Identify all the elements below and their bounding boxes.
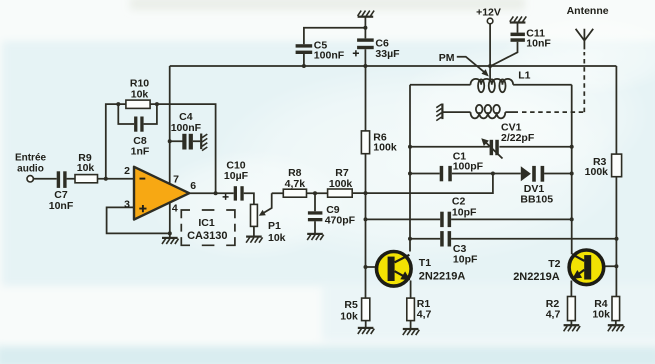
svg-text:100k: 100k	[585, 166, 609, 178]
svg-text:L1: L1	[518, 70, 530, 82]
svg-text:4,7: 4,7	[546, 309, 561, 321]
svg-text:10µF: 10µF	[224, 170, 249, 182]
svg-text:10nF: 10nF	[49, 200, 74, 212]
svg-text:10nF: 10nF	[526, 37, 551, 49]
svg-text:10k: 10k	[77, 162, 95, 174]
svg-text:100nF: 100nF	[171, 122, 202, 134]
svg-text:100k: 100k	[329, 178, 353, 190]
svg-text:2: 2	[124, 165, 130, 177]
svg-text:4: 4	[172, 202, 178, 214]
svg-text:33µF: 33µF	[375, 48, 400, 60]
svg-text:4,7k: 4,7k	[285, 178, 306, 190]
svg-text:10pF: 10pF	[453, 254, 478, 266]
svg-text:100nF: 100nF	[314, 50, 345, 62]
svg-text:100k: 100k	[373, 142, 397, 154]
svg-text:10k: 10k	[340, 311, 358, 323]
svg-text:7: 7	[173, 174, 179, 186]
svg-text:+12V: +12V	[476, 6, 501, 18]
svg-text:4,7: 4,7	[417, 309, 432, 321]
svg-text:10pF: 10pF	[452, 206, 477, 218]
svg-text:10k: 10k	[268, 232, 286, 244]
svg-text:Antenne: Antenne	[567, 5, 609, 17]
svg-text:R5: R5	[344, 299, 358, 311]
svg-text:PM: PM	[439, 52, 455, 64]
svg-text:2N2219A: 2N2219A	[513, 271, 560, 283]
svg-text:2N2219A: 2N2219A	[419, 271, 466, 283]
svg-text:10k: 10k	[131, 89, 149, 101]
svg-text:P1: P1	[268, 220, 281, 232]
svg-text:2/22pF: 2/22pF	[501, 132, 535, 144]
svg-text:470pF: 470pF	[325, 215, 356, 227]
svg-text:3: 3	[124, 199, 130, 211]
svg-text:1nF: 1nF	[131, 145, 150, 157]
svg-text:6: 6	[190, 180, 196, 192]
svg-text:T1: T1	[419, 257, 431, 269]
svg-text:BB105: BB105	[520, 194, 553, 206]
svg-text:IC1: IC1	[198, 217, 215, 229]
svg-text:CA3130: CA3130	[187, 230, 227, 242]
svg-text:audio: audio	[17, 164, 44, 175]
svg-text:10k: 10k	[592, 309, 610, 321]
svg-text:Entrée: Entrée	[15, 152, 47, 163]
svg-text:100pF: 100pF	[453, 161, 484, 173]
svg-text:T2: T2	[548, 258, 560, 270]
